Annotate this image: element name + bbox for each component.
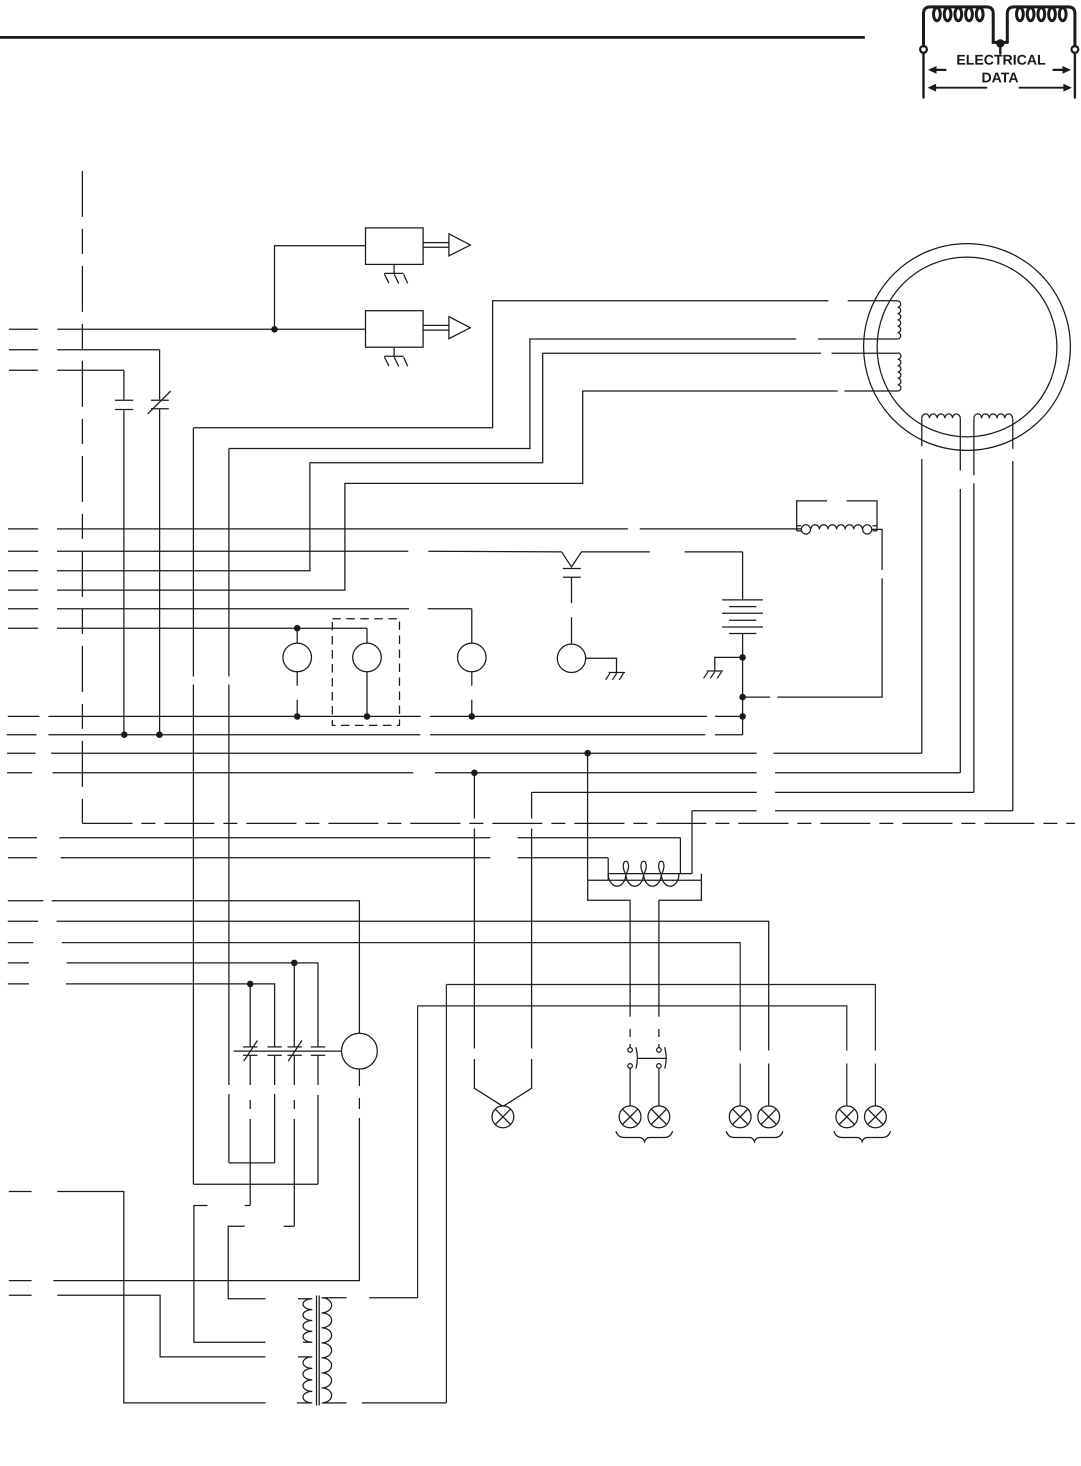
- junction node pilot lamp feed: [471, 770, 478, 777]
- open link K2 right half: [284, 1225, 295, 1227]
- gauge G2: [353, 628, 382, 716]
- wire to stator coil B top: [8, 353, 898, 571]
- CDI capacitor C3 (slashed): [243, 1041, 257, 1062]
- wire V1 to coil A top: [193, 301, 897, 428]
- junction node above G1: [294, 625, 301, 632]
- branch to CDI capacitor C5: [293, 963, 295, 1226]
- wire harness stub row 2 to C2: [9, 349, 160, 351]
- transformer T2 secondary winding: [322, 1298, 347, 1403]
- gauge return bus wire: [8, 715, 743, 717]
- lamp L2 lead: [658, 1068, 660, 1106]
- open link K2 left half: [228, 1226, 265, 1298]
- junction node G2 to bus: [364, 713, 371, 720]
- junction node battery to gauge bus: [739, 713, 746, 720]
- wire to ignition coil right: [8, 837, 680, 839]
- wire coil D right drop to ignition coil: [691, 811, 693, 874]
- wire to CDI unit top: [8, 901, 360, 1033]
- lamp L1 lead: [629, 1068, 631, 1106]
- chassis ground under J2: [384, 347, 408, 366]
- stator coil B (lower left): [898, 353, 901, 391]
- wire to pilot lamp left lead: [474, 773, 503, 1107]
- wire coil D left to headlamp feed: [532, 791, 974, 793]
- chassis ground under J1: [384, 264, 408, 283]
- alternator inner ring: [877, 257, 1057, 437]
- wire lower transformer feed: [9, 1295, 266, 1357]
- open link K1 left half: [194, 1206, 266, 1343]
- dashed option box around G2: [332, 619, 399, 726]
- logo title text ELECTRICAL DATA: [956, 52, 1046, 86]
- wire transformer secondary to lamp pair 3 left: [418, 1006, 847, 1298]
- junction node C5 branch: [291, 960, 298, 967]
- alternator outer ring: [864, 244, 1071, 451]
- wire to CDI capacitors C5 C6: [8, 963, 318, 1184]
- wire to tail lamp pair 2 left: [8, 943, 740, 1106]
- logo right inductor L-right: [1007, 7, 1075, 46]
- transformer T2 primary lower winding: [297, 1357, 312, 1403]
- top rule: [0, 36, 864, 39]
- fuse F1 bracket: [797, 501, 877, 531]
- gauge G4 (right circle): [557, 644, 616, 672]
- junction node C1 to bus: [121, 731, 128, 738]
- wire to fuse F1: [8, 528, 801, 530]
- brace under lamp pair 1: [616, 1131, 673, 1142]
- stator coil C (bottom left): [922, 414, 960, 418]
- wire to stator coil C right: [7, 772, 960, 774]
- cross link wire at 1184: [193, 1183, 318, 1185]
- wire to pilot lamp right lead: [503, 792, 531, 1106]
- CDI capacitor C6: [311, 1047, 325, 1055]
- switch S1: [628, 1047, 638, 1068]
- transformer primary feed left bottom: [9, 1192, 266, 1403]
- ignition coil right terminal lead: [679, 838, 681, 874]
- CDI unit circle: [342, 1033, 378, 1069]
- ignition coil leg to switch S2: [658, 900, 660, 1047]
- wire to tail lamp pair 2 right: [8, 921, 769, 1106]
- CDI bus wire: [234, 1050, 342, 1052]
- switch tie bar: [638, 1057, 666, 1059]
- lamp L3: [729, 1106, 751, 1128]
- earth ground at battery: [704, 671, 723, 678]
- ignition coil leg to switch S1: [629, 900, 631, 1047]
- wire from junction to J1: [275, 246, 366, 329]
- lamp L2: [648, 1106, 670, 1128]
- coil C left lead: [921, 418, 923, 753]
- svg-text:ELECTRICAL: ELECTRICAL: [956, 52, 1046, 68]
- coil D right lead: [1012, 418, 1014, 811]
- lamp L6: [865, 1106, 887, 1128]
- gauge G3: [458, 609, 487, 717]
- wire ignition coil case feed: [587, 753, 589, 880]
- junction node battery to fuse return: [739, 694, 746, 701]
- ignition coil T1 primary winding: [608, 861, 692, 886]
- wire to stator coil B bottom: [8, 391, 898, 590]
- switch S2: [657, 1047, 667, 1068]
- battery ground branch: [715, 657, 743, 670]
- wire to CDI capacitors C3 C4: [8, 984, 275, 1163]
- wire CDI to bottom stub: [9, 1069, 360, 1281]
- logo bottom span arrows: [928, 84, 1072, 92]
- pilot lamp L0: [492, 1106, 514, 1128]
- dashed partition vertical: [81, 171, 83, 824]
- wire to diode D1 and battery positive: [8, 550, 743, 553]
- wire to gauge G3: [8, 608, 472, 610]
- connector J2 output arrow: [423, 317, 470, 339]
- fuse F1 element: [801, 525, 872, 534]
- stator coil A (upper left): [898, 301, 901, 339]
- junction node ignition feed: [584, 750, 591, 757]
- wire to gauges G1 G2: [8, 627, 367, 629]
- logo mid arrows: [928, 66, 1071, 74]
- junction node battery to ground: [739, 654, 746, 661]
- logo right terminal: [1072, 46, 1079, 98]
- junction dot on J2 feed wire: [271, 326, 278, 333]
- wire fuse to battery feed: [743, 529, 883, 697]
- connector J1 output arrow: [423, 234, 470, 256]
- transformer T2 core: [317, 1296, 320, 1406]
- logo left inductor L-left: [924, 7, 1008, 46]
- CDI capacitor C5 (slashed): [288, 1041, 302, 1062]
- open link K1 right half: [245, 1205, 251, 1207]
- earth ground at G4: [606, 673, 625, 680]
- CDI capacitor C4: [267, 1047, 281, 1055]
- stator coil D (bottom right): [974, 414, 1013, 418]
- long wire from node V1 down left column: [192, 428, 194, 1184]
- battery BT1: [722, 552, 763, 735]
- wire harness stub row 1: [9, 328, 366, 330]
- battery negative bus wire: [7, 734, 743, 736]
- transformer T2 primary upper winding: [298, 1299, 312, 1343]
- wire V2 to coil A bottom: [229, 339, 898, 449]
- logo left terminal: [920, 46, 927, 98]
- wire to ignition coil left: [8, 857, 608, 859]
- lamp L5: [836, 1106, 858, 1128]
- brace under lamp pair 2: [726, 1131, 783, 1142]
- connector box J2: [366, 311, 424, 348]
- secondary top lead continuation: [369, 1297, 417, 1299]
- ignition coil T1 body: [588, 874, 702, 901]
- svg-text:DATA: DATA: [981, 69, 1018, 85]
- long wire from node V2 down left column: [228, 449, 230, 1163]
- trimmer capacitor C2: [148, 350, 171, 735]
- branch to CDI capacitor C3: [249, 984, 251, 1206]
- dash-dot partition horizontal: [82, 822, 1075, 824]
- wire coil D right to ignition: [692, 810, 1013, 812]
- lighting coil U-link: [229, 1162, 275, 1164]
- wire to stator coil C left: [7, 752, 922, 754]
- wire harness stub row 3 to C1: [9, 369, 124, 371]
- ignition coil left terminal lead: [607, 858, 609, 880]
- junction node G3 to bus: [469, 713, 476, 720]
- brace under lamp pair 3: [834, 1131, 891, 1142]
- junction node C2 to bus: [156, 731, 163, 738]
- wire transformer secondary to lamp pair 3 right: [446, 985, 875, 1403]
- connector box J1: [366, 228, 424, 265]
- diode D1: [562, 552, 581, 644]
- junction node G1 to bus: [294, 713, 301, 720]
- capacitor C1: [115, 370, 133, 734]
- coil D left lead: [973, 418, 975, 792]
- gauge G1: [283, 628, 312, 716]
- secondary bottom lead continuation: [362, 1402, 447, 1404]
- junction node C3 branch: [247, 981, 254, 988]
- logo center tap node: [996, 39, 1004, 53]
- lamp L4: [758, 1106, 780, 1128]
- coil C right lead: [959, 418, 961, 773]
- lamp L1: [619, 1106, 641, 1128]
